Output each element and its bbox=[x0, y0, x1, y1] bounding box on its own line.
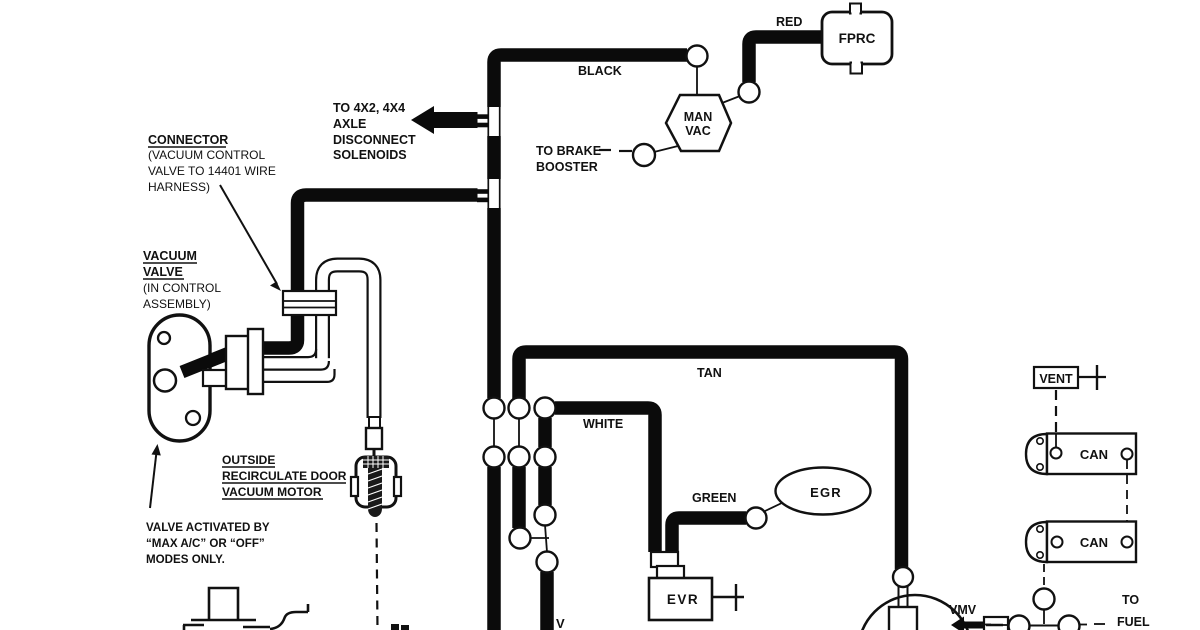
svg-text:VALVE ACTIVATED BY: VALVE ACTIVATED BY bbox=[146, 521, 270, 534]
svg-text:“MAX A/C” OR “OFF”: “MAX A/C” OR “OFF” bbox=[146, 537, 265, 550]
svg-text:CAN: CAN bbox=[1080, 535, 1108, 550]
svg-text:TO 4X2, 4X4: TO 4X2, 4X4 bbox=[333, 101, 405, 115]
svg-text:RED: RED bbox=[776, 15, 802, 29]
svg-text:VACUUM MOTOR: VACUUM MOTOR bbox=[222, 485, 322, 499]
svg-text:CAN: CAN bbox=[1080, 447, 1108, 462]
svg-text:GREEN: GREEN bbox=[692, 491, 736, 505]
svg-text:EVR: EVR bbox=[667, 592, 699, 607]
svg-text:EGR: EGR bbox=[810, 485, 842, 500]
svg-text:BOOSTER: BOOSTER bbox=[536, 160, 598, 174]
svg-text:FPRC: FPRC bbox=[839, 31, 876, 46]
svg-text:BLACK: BLACK bbox=[578, 64, 622, 78]
svg-text:VMV: VMV bbox=[949, 603, 977, 617]
svg-text:MAN: MAN bbox=[684, 110, 712, 124]
svg-text:VENT: VENT bbox=[1039, 372, 1073, 386]
svg-text:SOLENOIDS: SOLENOIDS bbox=[333, 148, 407, 162]
svg-text:HARNESS): HARNESS) bbox=[148, 180, 210, 194]
svg-text:DISCONNECT: DISCONNECT bbox=[333, 133, 416, 147]
svg-text:VALVE: VALVE bbox=[143, 265, 183, 279]
svg-text:V: V bbox=[556, 616, 565, 630]
svg-text:VALVE TO 14401 WIRE: VALVE TO 14401 WIRE bbox=[148, 164, 276, 178]
svg-text:ASSEMBLY): ASSEMBLY) bbox=[143, 297, 211, 311]
svg-text:(VACUUM CONTROL: (VACUUM CONTROL bbox=[148, 148, 265, 162]
svg-text:TAN: TAN bbox=[697, 366, 722, 380]
svg-text:VAC: VAC bbox=[685, 124, 710, 138]
svg-text:OUTSIDE: OUTSIDE bbox=[222, 453, 275, 467]
svg-text:WHITE: WHITE bbox=[583, 417, 623, 431]
svg-text:TO BRAKE: TO BRAKE bbox=[536, 144, 601, 158]
svg-text:VACUUM: VACUUM bbox=[143, 249, 197, 263]
svg-text:CONNECTOR: CONNECTOR bbox=[148, 133, 228, 147]
svg-text:MODES ONLY.: MODES ONLY. bbox=[146, 553, 225, 566]
svg-text:RECIRCULATE DOOR: RECIRCULATE DOOR bbox=[222, 469, 347, 483]
svg-text:(IN CONTROL: (IN CONTROL bbox=[143, 281, 221, 295]
svg-text:TO: TO bbox=[1122, 593, 1139, 607]
svg-text:FUEL: FUEL bbox=[1117, 615, 1150, 629]
svg-text:AXLE: AXLE bbox=[333, 117, 366, 131]
